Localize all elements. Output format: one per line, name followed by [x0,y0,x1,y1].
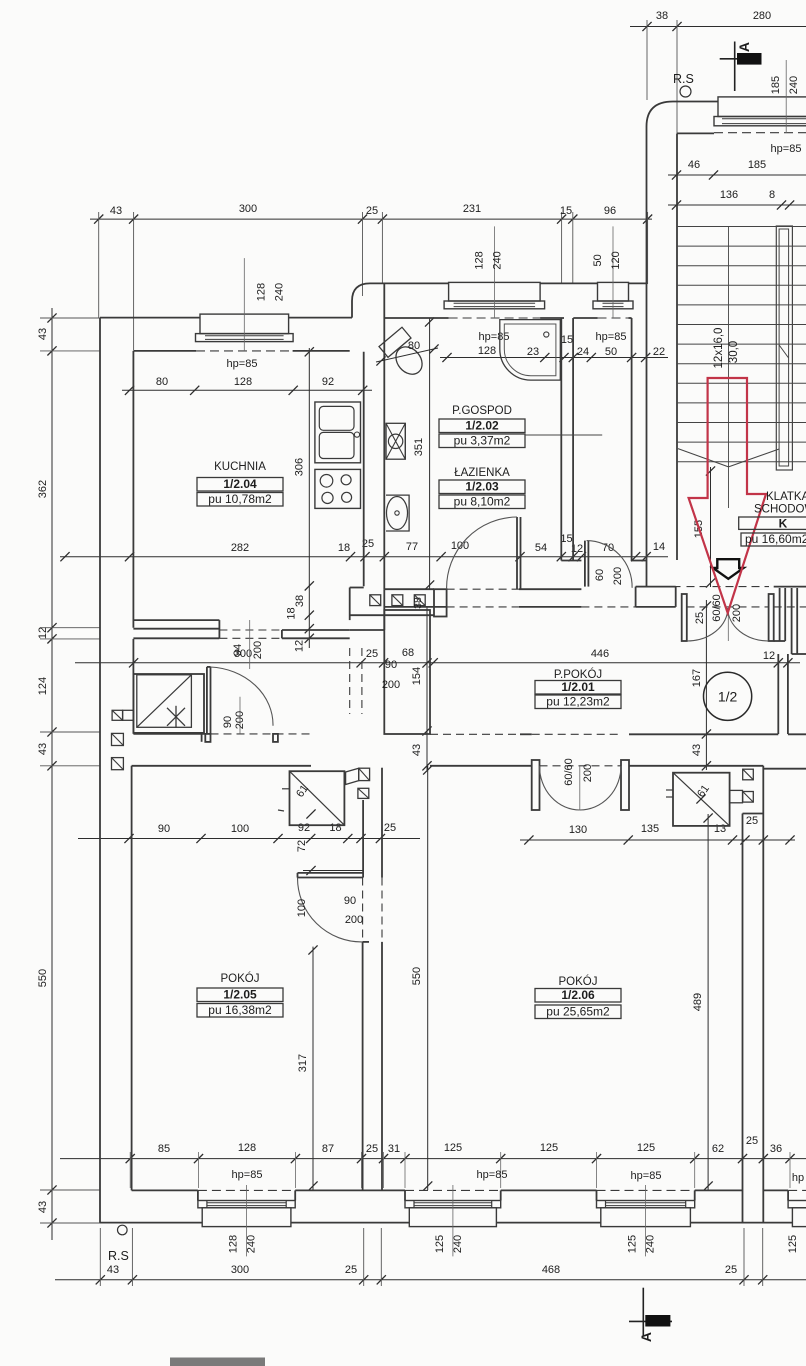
svg-text:125: 125 [627,1235,639,1253]
svg-text:22: 22 [653,346,665,358]
svg-text:KLATKA: KLATKA [766,491,806,503]
svg-text:128: 128 [478,345,496,357]
svg-text:128: 128 [255,283,267,301]
svg-text:468: 468 [542,1264,560,1276]
svg-text:240: 240 [273,283,285,301]
svg-text:185: 185 [770,76,782,94]
svg-text:25: 25 [746,815,758,827]
wall between rooms 05/06 upper block with chimney [362,800,364,878]
svg-text:128: 128 [228,1235,240,1253]
svg-text:POKÓJ: POKÓJ [559,975,598,988]
door 60/60 to room 06 [532,760,540,810]
bottom inner wall edge [132,1189,198,1191]
svg-text:280: 280 [753,10,771,22]
svg-text:167: 167 [691,669,703,687]
svg-text:60: 60 [594,569,606,581]
vertical dim 306 / 38 / 18 / 12 (kitchen right) [308,348,310,648]
svg-text:306: 306 [294,458,306,476]
lazienka door arc (100) [516,517,518,589]
svg-text:90: 90 [344,895,356,907]
bottom-most dim line y=1279.8 (43 300 25 468 25) [55,1279,806,1281]
window room06 b 125/240 [596,1190,598,1200]
svg-text:hp: hp [792,1172,804,1184]
svg-text:87: 87 [322,1143,334,1155]
top right dim line (38 280) [630,26,806,28]
svg-text:hp=85: hp=85 [479,331,510,343]
svg-text:38: 38 [294,595,306,607]
bathroom left wall [383,283,385,589]
svg-text:KUCHNIA: KUCHNIA [214,461,266,473]
svg-text:43: 43 [107,1264,119,1276]
svg-text:15: 15 [561,334,573,346]
P.GOSPOD right wall inner [631,318,633,561]
kitchen top wall outer [100,317,200,319]
svg-text:200: 200 [252,641,264,659]
svg-text:14: 14 [653,541,665,553]
toilet (rotated) [379,327,431,381]
vent flues band in hall top wall [350,614,434,616]
asterisk symbol [167,708,185,726]
svg-text:128: 128 [234,376,252,388]
svg-text:30,0: 30,0 [728,341,740,363]
svg-text:1/2.03: 1/2.03 [465,480,499,494]
svg-text:8: 8 [769,189,775,201]
door to room05 (90/200) leaf+arc [205,734,210,742]
svg-text:124: 124 [37,677,49,695]
room06 right wall [742,814,744,1223]
svg-text:13: 13 [714,823,726,835]
scan artifact bottom [170,1358,265,1366]
svg-text:136: 136 [720,189,738,201]
svg-text:1/2.06: 1/2.06 [561,988,595,1002]
svg-text:31: 31 [388,1143,400,1155]
staircase left wall [646,127,648,587]
stair dim line (46 185) [668,174,806,176]
svg-text:200: 200 [582,764,594,782]
svg-text:128: 128 [473,251,485,269]
hall top wall (bathroom bottom) [384,588,434,590]
dims 130 135 13 25 y=839 [520,839,795,841]
svg-text:36: 36 [770,1143,782,1155]
svg-text:100: 100 [296,899,308,917]
svg-text:1/2: 1/2 [718,689,738,705]
svg-text:90: 90 [158,823,170,835]
window room06 a 125/240 [404,1190,406,1200]
svg-text:94: 94 [232,644,244,656]
middle dim line y=557 (282 18 25 77 100 54 | 15 12 70 14) [60,556,668,558]
svg-text:R.S: R.S [108,1249,129,1263]
svg-text:1/2.04: 1/2.04 [223,477,257,491]
svg-text:240: 240 [246,1235,258,1253]
svg-text:90: 90 [222,716,234,728]
jamb below chimney [201,733,203,742]
bottom window dim line y=1158.6 [60,1158,806,1160]
svg-text:12x16,0: 12x16,0 [713,328,725,369]
svg-text:18: 18 [329,822,341,834]
window room05 128/240 [197,1190,199,1200]
svg-text:25: 25 [384,822,396,834]
svg-text:43: 43 [691,744,703,756]
svg-text:125: 125 [444,1142,462,1154]
svg-text:200: 200 [612,567,624,585]
vertical dim 550 (room 06 left) [427,766,429,1190]
svg-text:200: 200 [345,914,363,926]
svg-text:pu 16,60m2: pu 16,60m2 [745,532,806,546]
svg-text:77: 77 [406,541,418,553]
vertical dim 167 / 43 right [705,600,707,770]
svg-text:96: 96 [604,205,616,217]
svg-text:15: 15 [560,205,572,217]
lower hall dims (90 100 92 18 25) y=838.5 [78,838,420,840]
vertical dim 155 (stairs to entrance) [710,467,712,587]
bottom outer wall with windows [100,1222,202,1224]
svg-text:300: 300 [231,1264,249,1276]
svg-text:25: 25 [366,648,378,660]
fan symbol in shaft [386,423,405,459]
svg-text:25: 25 [366,205,378,217]
window right partial [787,1190,789,1200]
svg-text:92: 92 [298,822,310,834]
svg-text:125: 125 [434,1235,446,1253]
svg-text:43: 43 [37,1201,49,1213]
left vertical dim column [51,308,53,1240]
entrance wall band with double door 60/60 [647,586,676,588]
svg-text:25: 25 [366,1143,378,1155]
svg-text:489: 489 [692,993,704,1011]
svg-text:hp=85: hp=85 [232,1169,263,1181]
svg-text:92: 92 [322,376,334,388]
svg-text:ŁAZIENKA: ŁAZIENKA [454,467,510,479]
stair break symbol [678,449,729,467]
svg-text:hp=85: hp=85 [477,1169,508,1181]
black entrance arrow [713,559,744,579]
svg-text:154: 154 [411,667,423,685]
staircase window 185/240 [718,97,806,117]
svg-text:SCHODOW: SCHODOW [754,504,806,516]
red down arrow [689,378,766,613]
kitchen top wall inner [133,350,196,352]
kitchen right wall [363,352,365,587]
svg-text:25: 25 [746,1135,758,1147]
svg-text:125: 125 [540,1142,558,1154]
railing [776,226,792,470]
svg-text:38: 38 [412,597,424,609]
bathroom block top wall outer [376,282,449,284]
svg-text:pu 3,37m2: pu 3,37m2 [454,434,511,448]
svg-text:60/60: 60/60 [563,758,575,786]
svg-text:hp=85: hp=85 [771,143,802,155]
outer wall left [99,318,101,1223]
svg-text:80: 80 [408,340,420,352]
hall pier wall (68) [384,610,430,734]
svg-text:125: 125 [637,1142,655,1154]
bathroom inner top edge dashed over windows [384,317,448,319]
svg-text:hp=85: hp=85 [631,1170,662,1182]
kitchen top dims (80 128 92) [122,389,372,391]
svg-text:61: 61 [695,783,712,800]
svg-text:135: 135 [641,823,659,835]
svg-text:K: K [779,517,788,531]
R.S bottom [118,1225,128,1235]
svg-text:50: 50 [605,346,617,358]
svg-text:351: 351 [413,438,425,456]
svg-text:50: 50 [592,254,604,266]
shower tray [500,320,561,381]
entrance door jambs and arcs [682,594,687,641]
room05 top wall [133,733,205,735]
svg-text:240: 240 [645,1235,657,1253]
svg-text:pu 25,65m2: pu 25,65m2 [546,1005,610,1019]
bathroom block window dims (128 23 15 24 50 22) [440,357,668,359]
svg-text:128: 128 [238,1142,256,1154]
svg-text:18: 18 [338,542,350,554]
svg-text:pu 16,38m2: pu 16,38m2 [208,1003,272,1017]
right chimney block 61 [673,773,730,826]
svg-text:P.GOSPOD: P.GOSPOD [452,405,512,417]
stair walking line [728,226,730,508]
chimney block rooms 05/06 [290,771,345,825]
svg-text:12: 12 [763,650,775,662]
svg-text:25: 25 [345,1264,357,1276]
vertical dim 489 [707,814,709,1190]
svg-text:12: 12 [37,627,49,639]
svg-text:68: 68 [402,647,414,659]
section marker A bottom [642,1288,644,1336]
stair dim line (136 8) [668,204,806,206]
top dimension line row (43 300 25 231 15 96) [90,218,652,220]
svg-text:120: 120 [610,251,622,269]
svg-text:72: 72 [296,840,308,852]
vent squares right [743,769,754,780]
circle 1/2 [704,672,752,720]
svg-text:24: 24 [577,346,589,358]
svg-text:100: 100 [231,823,249,835]
right wall column next to entrance [779,588,781,641]
svg-text:317: 317 [297,1054,309,1072]
P.GOSPOD window 50/120 [598,282,629,301]
svg-text:85: 85 [158,1143,170,1155]
svg-text:hp=85: hp=85 [227,358,258,370]
svg-text:240: 240 [491,251,503,269]
svg-text:200: 200 [382,679,400,691]
svg-text:43: 43 [110,205,122,217]
svg-text:130: 130 [569,824,587,836]
svg-text:200: 200 [234,711,246,729]
staircase top curve [647,102,719,127]
svg-text:43: 43 [37,743,49,755]
door between rooms 05/06 [362,942,364,1191]
svg-text:43: 43 [37,328,49,340]
svg-text:240: 240 [788,76,800,94]
svg-text:185: 185 [748,159,766,171]
svg-text:90: 90 [385,659,397,671]
svg-text:pu 12,23m2: pu 12,23m2 [546,695,610,709]
svg-text:hp=85: hp=85 [596,331,627,343]
kitchen stove 4 burners [315,469,361,508]
svg-text:1/2.01: 1/2.01 [561,680,595,694]
svg-text:pu 10,78m2: pu 10,78m2 [208,492,272,506]
svg-text:1/2.02: 1/2.02 [465,419,499,433]
hall chimney block [133,674,204,733]
svg-text:60/60: 60/60 [711,594,723,622]
left wall vent squares [112,733,124,745]
kitchen sink unit [315,402,361,463]
svg-text:A: A [736,42,752,52]
jamb near lazienka door [434,589,447,616]
svg-text:446: 446 [591,648,609,660]
svg-text:25: 25 [694,612,706,624]
left wall inner edge [132,351,134,628]
hall dim line y=663 (300 25 68 446 12) [75,662,800,664]
kitchen opening centerline + labels 94/200 [249,620,251,669]
svg-text:25: 25 [725,1264,737,1276]
svg-text:43: 43 [411,744,423,756]
svg-text:300: 300 [239,203,257,215]
dashed opening 90/200 left of pier [349,648,351,714]
vertical dim 351 (bathroom) [429,318,431,589]
svg-text:38: 38 [656,10,668,22]
flue connector + vent squares [346,768,359,784]
svg-text:80: 80 [156,376,168,388]
svg-text:54: 54 [535,542,547,554]
svg-text:125: 125 [787,1235,799,1253]
svg-text:550: 550 [411,967,423,985]
svg-text:pu 8,10m2: pu 8,10m2 [454,495,511,509]
jamb steps for 05/06 door [363,941,369,943]
bathroom sink [386,495,409,531]
svg-text:12: 12 [294,640,306,652]
P.POKOJ bottom wall [430,733,532,735]
vertical dim 154 / 43 (pier) [426,607,428,770]
P.GOSPOD bottom wall / door 70 [561,560,581,562]
vertical dim 317 (room 05 right) [312,947,314,1190]
svg-text:62: 62 [712,1143,724,1155]
svg-text:550: 550 [37,969,49,987]
svg-text:240: 240 [452,1235,464,1253]
svg-text:46: 46 [688,159,700,171]
kitchen bottom wall [133,619,219,621]
svg-text:POKÓJ: POKÓJ [221,972,260,985]
shaft corner curve to upper block [352,283,376,317]
wall between LAZIENKA and P.GOSPOD [560,318,562,561]
svg-text:23: 23 [527,346,539,358]
section marker A top [734,42,736,92]
kitchen window 128/240 [200,314,289,334]
svg-text:61: 61 [294,783,311,800]
svg-text:282: 282 [231,542,249,554]
svg-text:362: 362 [37,480,49,498]
svg-text:R.S: R.S [673,72,694,86]
svg-text:200: 200 [731,604,743,622]
svg-text:18: 18 [286,607,298,619]
svg-text:A: A [638,1332,654,1342]
connector vent [112,710,123,720]
svg-text:231: 231 [463,203,481,215]
stair treads [677,226,806,228]
bathroom window 128/240 [449,282,540,301]
svg-text:1/2.05: 1/2.05 [223,988,257,1002]
